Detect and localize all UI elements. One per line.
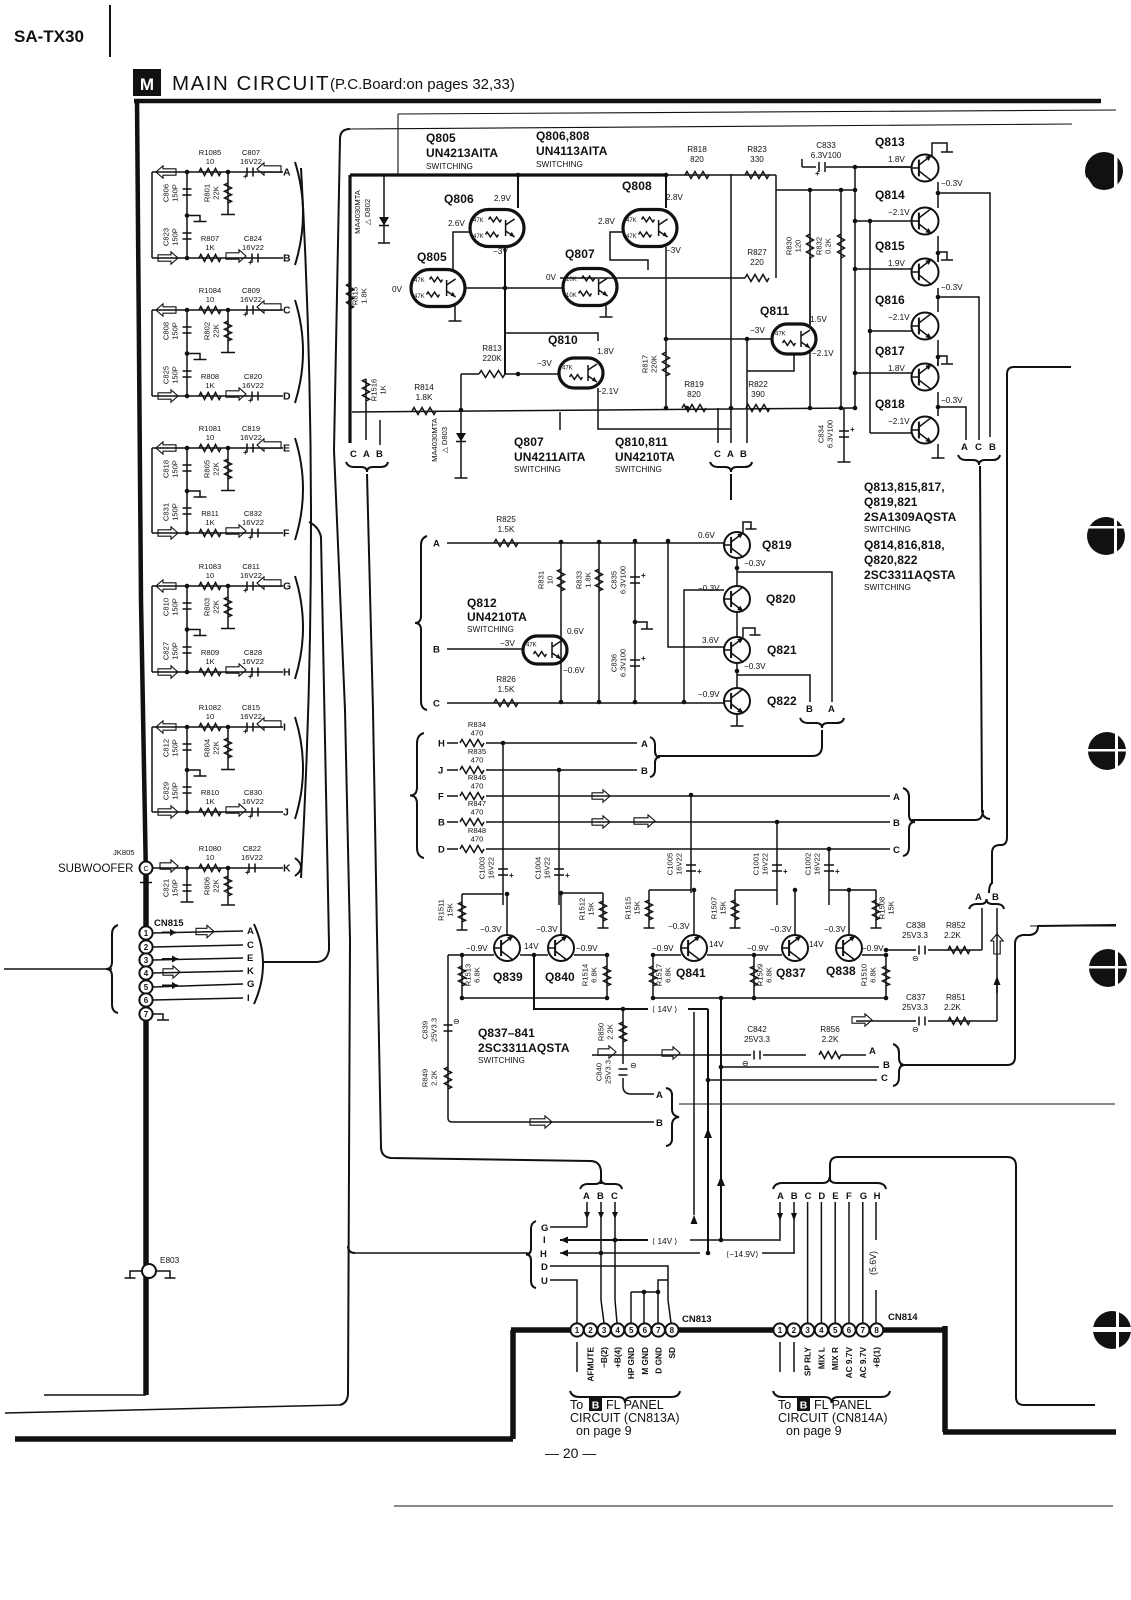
scan hole 4	[1088, 947, 1128, 989]
svg-text:−0.3V: −0.3V	[941, 283, 963, 292]
capacitor C1002 16V22	[804, 847, 841, 905]
input filter block I/J (R1082,C815,C812,R804,C829,R810,C830)	[152, 703, 303, 821]
svg-text:R823: R823	[747, 145, 767, 154]
voltage labels -0.3V	[941, 179, 963, 405]
svg-text:6.8K: 6.8K	[664, 967, 673, 983]
svg-text:0.6V: 0.6V	[698, 531, 715, 540]
svg-text:1.8K: 1.8K	[360, 288, 369, 304]
svg-text:C: C	[433, 699, 440, 710]
svg-text:FL PANEL: FL PANEL	[814, 1398, 872, 1412]
resistor R806 22K	[203, 868, 236, 905]
svg-text:R1508: R1508	[878, 897, 887, 919]
svg-text:R802: R802	[203, 322, 212, 340]
wire Q808 base to Q807	[610, 232, 648, 270]
Q819 ground	[743, 522, 757, 533]
svg-text:C1004: C1004	[534, 857, 543, 879]
Q806 voltages	[448, 194, 511, 256]
svg-text:Q807: Q807	[565, 247, 595, 261]
voltage -0.3V (Q819 emitter)	[744, 559, 766, 568]
svg-text:Q808: Q808	[622, 179, 652, 193]
svg-text:22K: 22K	[212, 741, 221, 755]
Q813 ground	[932, 143, 953, 157]
svg-text:0V: 0V	[392, 285, 403, 294]
svg-text:2SC3311AQSTA: 2SC3311AQSTA	[864, 568, 956, 582]
svg-text:E: E	[832, 1191, 838, 1202]
resistor R1507 15K	[710, 890, 778, 928]
svg-text:1.8V: 1.8V	[888, 364, 905, 373]
svg-text:470: 470	[471, 756, 484, 765]
svg-text:16V22: 16V22	[487, 857, 496, 879]
svg-text:SUBWOOFER: SUBWOOFER	[58, 863, 133, 875]
svg-text:F: F	[438, 792, 444, 803]
svg-text:1K: 1K	[205, 243, 214, 252]
svg-text:5: 5	[629, 1326, 634, 1335]
svg-text:To: To	[778, 1398, 791, 1412]
svg-text:Q837–841: Q837–841	[478, 1026, 535, 1040]
svg-text:−3V: −3V	[537, 359, 552, 368]
wire Q820 base from row C	[684, 590, 724, 702]
svg-text:R830: R830	[785, 237, 794, 255]
svg-text:6: 6	[144, 996, 149, 1005]
Q818 base wire	[870, 432, 912, 434]
svg-text:D: D	[438, 845, 445, 856]
svg-text:+: +	[243, 172, 248, 181]
letters A B (right bundle)	[975, 892, 999, 903]
svg-text:150P: 150P	[171, 503, 180, 521]
14V bus from Q840	[534, 955, 648, 1009]
svg-text:+: +	[697, 867, 702, 876]
svg-text:1K: 1K	[205, 518, 214, 527]
svg-text:−0.9V: −0.9V	[576, 944, 598, 953]
bus x870 (even bases)	[869, 221, 871, 433]
svg-text:G: G	[247, 979, 254, 990]
wire W2 bottom horizontal	[5, 1405, 340, 1413]
svg-text:H: H	[874, 1191, 881, 1202]
resistor R826 1.5K	[494, 675, 518, 707]
Q813 base wire	[855, 166, 912, 168]
svg-text:R1515: R1515	[624, 897, 633, 919]
svg-text:A: A	[828, 704, 835, 715]
svg-text:R1512: R1512	[578, 898, 587, 920]
svg-text:SA-TX30: SA-TX30	[14, 27, 84, 46]
svg-text:Q813,815,817,: Q813,815,817,	[864, 480, 945, 494]
svg-text:−0.3V: −0.3V	[941, 396, 963, 405]
svg-text:2.8V: 2.8V	[666, 193, 683, 202]
svg-text:Q811: Q811	[760, 304, 789, 318]
svg-text:Q819,821: Q819,821	[864, 495, 918, 509]
svg-text:0.6V: 0.6V	[567, 627, 584, 636]
transistor Q838	[824, 925, 884, 978]
svg-text:Q812: Q812	[467, 596, 497, 610]
resistor R1516 1K	[363, 379, 388, 440]
capacitor C839 25V3.3	[421, 955, 460, 1060]
svg-text:+: +	[248, 258, 253, 267]
vertical wire to Q808	[664, 173, 669, 208]
svg-text:R1081: R1081	[199, 424, 221, 433]
svg-text:R809: R809	[201, 648, 219, 657]
left bundle brace	[346, 462, 388, 472]
svg-text:47K: 47K	[473, 218, 484, 224]
thick bus CN813-CN814	[511, 1327, 945, 1333]
svg-text:6: 6	[847, 1326, 852, 1335]
left big brace (H-D rows)	[410, 733, 424, 858]
svg-text:SWITCHING: SWITCHING	[478, 1056, 525, 1065]
svg-text:R849: R849	[421, 1069, 430, 1087]
svg-text:1.9V: 1.9V	[888, 259, 905, 268]
svg-text:C836: C836	[610, 654, 619, 672]
svg-text:C828: C828	[244, 648, 262, 657]
CN814 labels brace	[773, 1391, 890, 1403]
CN815 pin7 ground	[153, 1014, 169, 1020]
svg-text:0.2K: 0.2K	[824, 238, 833, 254]
svg-text:C807: C807	[242, 148, 260, 157]
wire Q808 bottom vertical	[665, 247, 667, 339]
svg-text:−0.3V: −0.3V	[824, 925, 846, 934]
I row wire 14V	[560, 1237, 781, 1247]
svg-text:220: 220	[750, 258, 764, 267]
svg-text:Q839: Q839	[493, 970, 523, 984]
transistor Q841	[652, 922, 724, 980]
right bundle brace	[969, 899, 1004, 909]
rows to A B C letters (right)	[706, 1046, 890, 1084]
capacitor C838 25V3.3	[884, 921, 982, 963]
wire Q813 node to right loop	[938, 193, 990, 437]
transistor Q813	[875, 135, 939, 182]
svg-text:7: 7	[861, 1326, 866, 1335]
svg-text:C812: C812	[162, 739, 171, 757]
svg-text:6: 6	[643, 1326, 648, 1335]
transistor Q810	[548, 333, 603, 388]
Q841 right wire	[707, 953, 782, 958]
part label Q814,816,818 2SC3311AQSTA	[864, 538, 956, 592]
svg-text:R850: R850	[597, 1023, 606, 1041]
frame top thin line A	[398, 110, 1116, 175]
svg-text:−3V: −3V	[750, 326, 765, 335]
svg-text:R1513: R1513	[464, 964, 473, 986]
svg-text:R805: R805	[203, 460, 212, 478]
connector JK805 label	[113, 848, 135, 857]
svg-text:8: 8	[874, 1326, 879, 1335]
Q839 collector wire	[505, 892, 510, 935]
svg-text:150P: 150P	[171, 739, 180, 757]
connector CN814 label	[888, 1312, 918, 1323]
wire Q818 node right	[938, 407, 966, 440]
svg-text:UN4113AITA: UN4113AITA	[536, 144, 608, 158]
svg-text:2.2K: 2.2K	[944, 1003, 961, 1012]
svg-text:16V22: 16V22	[240, 433, 262, 442]
row B wire (Q812 block)	[433, 645, 525, 656]
resistor R835 470 row J	[438, 747, 486, 777]
svg-text:470: 470	[471, 808, 484, 817]
transistor Q822	[698, 688, 797, 714]
svg-text:C838: C838	[906, 921, 926, 930]
svg-text:Q819: Q819	[762, 538, 792, 552]
svg-text:MA4030MTA: MA4030MTA	[353, 189, 362, 234]
svg-text:22K: 22K	[212, 462, 221, 476]
svg-text:C: C	[805, 1191, 812, 1202]
capacitor C1003 16V22	[478, 743, 515, 905]
svg-text:SWITCHING: SWITCHING	[514, 465, 561, 474]
wire below rail3	[559, 412, 561, 430]
resistor R1509 6.8K	[751, 955, 774, 998]
svg-text:16V22: 16V22	[242, 657, 264, 666]
svg-text:−0.3V: −0.3V	[744, 559, 766, 568]
svg-text:6.3V100: 6.3V100	[619, 566, 628, 594]
svg-text:B: B	[438, 818, 445, 829]
transistor Q812	[500, 636, 567, 664]
E803 right ground	[156, 1271, 176, 1278]
svg-text:D GND: D GND	[653, 1347, 663, 1374]
svg-text:+: +	[243, 310, 248, 319]
trunk bottom stub	[44, 1394, 146, 1396]
letters B A (Q819 bundle)	[806, 704, 835, 715]
wire Q815 node right	[938, 297, 979, 440]
svg-text:22K: 22K	[212, 600, 221, 614]
svg-text:−2.1V: −2.1V	[888, 208, 910, 217]
svg-text:1: 1	[575, 1326, 580, 1335]
svg-text:A: A	[283, 167, 291, 179]
Q839 base wire	[448, 953, 494, 958]
svg-text:R1082: R1082	[199, 703, 221, 712]
Q837 collector wire	[793, 888, 798, 935]
svg-text:C839: C839	[421, 1021, 430, 1039]
svg-text:C835: C835	[610, 571, 619, 589]
svg-text:470: 470	[471, 835, 484, 844]
A/B out brace	[666, 1088, 679, 1146]
svg-text:C830: C830	[244, 788, 262, 797]
svg-text:Q822: Q822	[767, 694, 797, 708]
svg-text:⟨−14.9V⟩: ⟨−14.9V⟩	[726, 1250, 759, 1259]
svg-text:330: 330	[750, 155, 764, 164]
svg-text:+: +	[641, 654, 646, 663]
svg-text:6.3V100: 6.3V100	[811, 151, 842, 160]
svg-text:16V22: 16V22	[761, 853, 770, 875]
G row wire	[550, 1226, 587, 1228]
resistor R825 1.5K	[494, 515, 518, 547]
svg-text:C827: C827	[162, 642, 171, 660]
svg-text:SWITCHING: SWITCHING	[536, 160, 583, 169]
svg-text:R815: R815	[351, 287, 360, 305]
svg-text:B: B	[806, 704, 813, 715]
svg-text:1: 1	[144, 929, 149, 938]
svg-text:R1085: R1085	[199, 148, 221, 157]
svg-text:AC 9.7V: AC 9.7V	[858, 1347, 868, 1379]
resistor R823 330	[745, 145, 769, 179]
wire W3 left-bundle bus down	[367, 474, 601, 1184]
Q838 collector wire	[847, 888, 852, 935]
svg-text:CN813: CN813	[682, 1314, 712, 1325]
svg-text:16V22: 16V22	[813, 853, 822, 875]
svg-text:−2.1V: −2.1V	[888, 313, 910, 322]
svg-text:−0.3V: −0.3V	[480, 925, 502, 934]
svg-text:C1003: C1003	[478, 857, 487, 879]
svg-text:10: 10	[206, 295, 214, 304]
CN815 group paren	[254, 924, 263, 1004]
svg-text:820: 820	[687, 390, 701, 399]
scan hole 5	[1092, 1309, 1131, 1351]
svg-text:16V22: 16V22	[543, 857, 552, 879]
svg-text:AFMUTE: AFMUTE	[586, 1347, 596, 1382]
svg-text:1K: 1K	[205, 797, 214, 806]
svg-text:SWITCHING: SWITCHING	[426, 162, 473, 171]
svg-text:1: 1	[778, 1326, 783, 1335]
svg-text:+: +	[243, 586, 248, 595]
svg-text:B: B	[791, 1191, 798, 1202]
svg-text:R826: R826	[496, 675, 516, 684]
letters A-H above CN814	[777, 1191, 881, 1202]
resistor R831 10	[537, 542, 565, 702]
svg-text:4: 4	[615, 1326, 620, 1335]
wire Q821 emitter to B tap	[737, 675, 810, 702]
transistor Q807	[563, 247, 617, 306]
wire from CN815 brace to left edge	[4, 968, 112, 970]
Q811 voltages	[750, 315, 834, 358]
svg-text:JK805: JK805	[113, 848, 135, 857]
svg-text:C1001: C1001	[752, 853, 761, 875]
svg-text:FL PANEL: FL PANEL	[606, 1398, 664, 1412]
svg-text:+: +	[565, 871, 570, 880]
resistor R832 0.2K	[815, 190, 845, 408]
svg-text:C808: C808	[162, 322, 171, 340]
svg-text:D: D	[283, 391, 291, 403]
part label Q837-841 2SC3311AQSTA	[478, 1026, 570, 1065]
CN814 pin labels	[780, 1342, 882, 1378]
capacitor C842 25V3.3	[592, 1025, 806, 1068]
resistor R851 2.2K	[944, 993, 970, 1025]
resistor R819 820	[682, 380, 706, 412]
svg-text:C833: C833	[816, 141, 836, 150]
Q838 right wire	[862, 953, 888, 958]
CN815 pin wires to nodes A C E K G I	[153, 925, 254, 1004]
input filter block G/H (R1083,C811,C810,R803,C827,R809,C828)	[152, 562, 303, 681]
row H wire to A	[486, 739, 648, 750]
svg-text:B: B	[800, 1400, 808, 1412]
svg-text:CIRCUIT (CN814A): CIRCUIT (CN814A)	[778, 1411, 888, 1425]
svg-text:150P: 150P	[171, 460, 180, 478]
svg-text:−0.9V: −0.9V	[862, 944, 884, 953]
svg-text:16V22: 16V22	[240, 712, 262, 721]
Q814 base wire	[853, 219, 912, 224]
svg-text:6.8K: 6.8K	[765, 967, 774, 983]
svg-text:C832: C832	[244, 509, 262, 518]
capacitor C1004 16V22	[534, 770, 571, 905]
svg-text:C820: C820	[244, 372, 262, 381]
svg-text:A: A	[975, 892, 982, 903]
svg-text:C821: C821	[162, 879, 171, 897]
junction rail2	[776, 188, 857, 193]
bundle left brace	[526, 1221, 536, 1288]
svg-text:Q837: Q837	[776, 966, 806, 980]
row F long wire	[486, 790, 900, 803]
svg-text:B: B	[740, 449, 747, 460]
letters C A B (osc bundle)	[714, 449, 747, 460]
svg-text:−0.3V: −0.3V	[536, 925, 558, 934]
svg-text:7: 7	[144, 1010, 149, 1019]
svg-text:C815: C815	[242, 703, 260, 712]
svg-text:A: A	[247, 926, 254, 937]
part label Q806,808 UN4113AITA	[536, 129, 608, 169]
svg-text:2.9V: 2.9V	[494, 194, 511, 203]
svg-text:⟨ 14V ⟩: ⟨ 14V ⟩	[652, 1005, 678, 1014]
transistor Q815	[875, 239, 939, 286]
svg-text:2SC3311AQSTA: 2SC3311AQSTA	[478, 1041, 570, 1055]
svg-text:UN4210TA: UN4210TA	[615, 450, 675, 464]
wire brace to top right riser	[830, 1157, 1095, 1405]
svg-text:R827: R827	[747, 248, 767, 257]
Q812 left brace	[415, 536, 427, 710]
Q841 collector wire	[692, 888, 697, 935]
svg-text:A: A	[869, 1046, 876, 1057]
osc bundle brace	[710, 462, 752, 500]
row A wire (Q812 block)	[433, 539, 724, 550]
letters A C B (Q813 bundle)	[961, 442, 996, 453]
svg-text:R1509: R1509	[756, 964, 765, 986]
left column group paren	[301, 168, 311, 878]
svg-text:C831: C831	[162, 503, 171, 521]
wire W2 long vertical (top wire to bottom-left)	[334, 129, 350, 1405]
svg-text:150P: 150P	[171, 642, 180, 660]
wire Q821 base from row A	[668, 541, 724, 647]
svg-text:C825: C825	[162, 366, 171, 384]
svg-text:6.8K: 6.8K	[590, 967, 599, 983]
resistor R814 1.8K	[412, 383, 436, 415]
svg-text:R808: R808	[201, 372, 219, 381]
svg-text:A: A	[433, 539, 440, 550]
capacitor C821 150P	[162, 868, 194, 902]
svg-text:C: C	[975, 442, 982, 453]
svg-text:16V22: 16V22	[675, 853, 684, 875]
svg-text:⊖: ⊖	[912, 954, 919, 963]
svg-text:3: 3	[805, 1326, 810, 1335]
svg-text:47K: 47K	[526, 643, 537, 649]
C835/C836 mid ground	[633, 620, 653, 629]
svg-text:1.5V: 1.5V	[810, 315, 827, 324]
svg-text:C822: C822	[243, 844, 261, 853]
svg-text:Q814,816,818,: Q814,816,818,	[864, 538, 945, 552]
svg-text:+: +	[509, 871, 514, 880]
svg-text:−3V: −3V	[500, 639, 515, 648]
svg-text:R1511: R1511	[437, 899, 446, 921]
svg-text:C1005: C1005	[666, 853, 675, 875]
letters C' A' B' (left bundle)	[350, 420, 383, 460]
svg-text:△ D803: △ D803	[440, 427, 449, 453]
transistor Q817	[875, 344, 939, 391]
A stub to C838 row	[981, 908, 983, 950]
wire F/B/D bundle to riser	[910, 810, 983, 820]
CN814 destination text	[778, 1398, 888, 1438]
input filter block E/F (R1081,C819,C818,R805,C831,R811,C832)	[152, 424, 303, 542]
Q815 base wire	[853, 267, 912, 272]
svg-text:6.8K: 6.8K	[869, 967, 878, 983]
svg-text:R1510: R1510	[860, 964, 869, 986]
svg-text:2SA1309AQSTA: 2SA1309AQSTA	[864, 510, 957, 524]
svg-text:150P: 150P	[171, 184, 180, 202]
SUBWOOFER text	[58, 863, 133, 875]
svg-text:A: A	[777, 1191, 784, 1202]
svg-text:1.5K: 1.5K	[498, 685, 515, 694]
svg-text:390: 390	[751, 390, 765, 399]
svg-text:+: +	[835, 867, 840, 876]
svg-text:150P: 150P	[171, 366, 180, 384]
wire Q813-bundle bus down	[980, 466, 990, 819]
svg-text:25V3.3: 25V3.3	[744, 1035, 770, 1044]
resistor R834 470 row H	[438, 720, 486, 750]
svg-text:G: G	[541, 1223, 548, 1234]
svg-text:C: C	[350, 449, 357, 460]
svg-text:15K: 15K	[633, 901, 642, 915]
svg-text:SP RLY: SP RLY	[803, 1347, 813, 1377]
subwoofer ground	[140, 875, 152, 883]
